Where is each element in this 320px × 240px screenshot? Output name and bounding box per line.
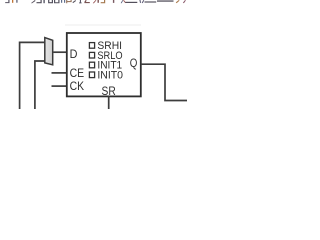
wire: mux bottom input, corner at left xyxy=(35,61,45,109)
wire: mux output to D pin xyxy=(53,51,66,53)
svg-text:SR: SR xyxy=(102,84,116,98)
svg-text:Q: Q xyxy=(130,56,138,70)
svg-text:D: D xyxy=(70,47,78,61)
wire: CK input stub xyxy=(52,85,67,87)
wire: CE input stub xyxy=(52,72,67,74)
checkbox SRLO xyxy=(89,52,94,58)
checkbox INIT0 xyxy=(89,72,94,78)
svg-text:CE: CE xyxy=(70,66,85,80)
wire: mux top input, corner at left xyxy=(20,42,45,109)
wire: SR input below box xyxy=(108,96,110,109)
checkbox SRHI xyxy=(89,43,94,49)
flip-flop U1 (register box) xyxy=(67,33,141,96)
svg-text:INIT0: INIT0 xyxy=(97,70,123,82)
clipped chinese text line (top, glyph bottoms only) xyxy=(5,0,186,3)
svg-text:CK: CK xyxy=(70,79,84,93)
mux (input multiplexer, 3D slab) xyxy=(45,38,53,65)
wire: Q output, right then down then right xyxy=(141,64,187,100)
faint ghost line above register box xyxy=(65,24,141,26)
checkbox INIT1 xyxy=(89,62,94,68)
